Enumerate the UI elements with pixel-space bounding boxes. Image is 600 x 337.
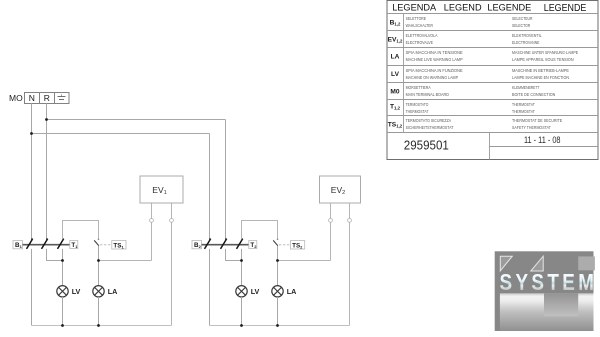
logo notch [544, 293, 578, 316]
node B1 pole3 junction [61, 259, 64, 262]
lamp LA1 [93, 286, 117, 297]
wire N feed horizontal [32, 133, 210, 135]
thermostat T1 label [70, 241, 78, 250]
svg-text:LA: LA [287, 287, 297, 296]
wire B1 pole1 to bus [31, 249, 33, 326]
svg-text:SICHERHEITSTHERMOSTAT: SICHERHEITSTHERMOSTAT [406, 125, 454, 130]
wire N vertical [31, 104, 33, 240]
svg-text:LAMPE APPAREIL SOUS TENSION: LAMPE APPAREIL SOUS TENSION [512, 57, 574, 62]
wire LV2 to bus [241, 297, 243, 326]
switch B2 pole 1 blade [205, 238, 212, 249]
svg-text:2959501: 2959501 [404, 137, 449, 152]
wire LA2 to bus [277, 297, 279, 326]
svg-text:B1,2: B1,2 [390, 19, 401, 26]
svg-text:MACHINE ON WARNING LAMP: MACHINE ON WARNING LAMP [406, 75, 459, 80]
svg-text:SELECTOR: SELECTOR [512, 23, 530, 28]
wire B1 pole2 jumper [47, 249, 63, 261]
ground [58, 94, 66, 99]
selector B2 label [192, 241, 202, 250]
switch B2 pole 3 blade [237, 238, 244, 249]
lamp LV1 [57, 286, 81, 297]
lamp LV2 [236, 286, 260, 297]
svg-text:LEGENDA: LEGENDA [392, 3, 437, 13]
node TS2 junction [276, 259, 279, 262]
svg-text:R: R [44, 93, 50, 103]
wire B2 pole2 jumper [226, 249, 242, 261]
wire EV2 left pin [330, 203, 332, 261]
svg-text:11 - 11 - 08: 11 - 11 - 08 [524, 135, 561, 145]
svg-text:LV: LV [251, 287, 260, 296]
svg-text:T2: T2 [250, 242, 257, 249]
switch B2 pole 2 blade [221, 238, 228, 249]
svg-text:LV: LV [391, 71, 400, 78]
svg-text:SELETTORE: SELETTORE [406, 16, 427, 21]
svg-text:THERMOSTAT: THERMOSTAT [512, 102, 535, 107]
node LA1 bus junction [97, 324, 100, 327]
wire R feed horizontal [47, 119, 226, 121]
wire bus circuit 2 [210, 325, 350, 327]
wire B2 pole1 to bus [209, 249, 211, 326]
node N feed junction [30, 132, 33, 135]
wire bus circuit 1 [32, 325, 172, 327]
selector B1 label [13, 241, 23, 250]
svg-text:ELECTROVANNE: ELECTROVANNE [512, 40, 540, 45]
svg-text:KLEMMENBRETT: KLEMMENBRETT [512, 85, 540, 90]
svg-text:BOITE DE CONNECTION: BOITE DE CONNECTION [512, 92, 555, 97]
svg-text:THERMOSTAT DE SECURITE: THERMOSTAT DE SECURITE [512, 118, 562, 123]
svg-text:N: N [29, 93, 35, 103]
wire EV1 right pin [171, 203, 173, 325]
svg-text:MASCHINE IN BETRIEB-LAMPE: MASCHINE IN BETRIEB-LAMPE [512, 68, 569, 73]
svg-text:LA: LA [391, 54, 400, 61]
connector EV1 left pin [150, 219, 154, 223]
wire B1 pole3 loop to TS1 [63, 221, 99, 240]
svg-text:SPIA MACCHINA IN FUNZIONE: SPIA MACCHINA IN FUNZIONE [406, 68, 463, 73]
svg-text:WAHLSCHALTER: WAHLSCHALTER [406, 23, 433, 28]
safety thermostat TS1 contact [94, 239, 111, 246]
svg-text:TS1,2: TS1,2 [388, 121, 403, 128]
svg-text:MACHINE LIVE WARNING LAMP: MACHINE LIVE WARNING LAMP [406, 57, 463, 62]
connector EV2 right pin [348, 219, 352, 223]
safety thermostat TS2 label [291, 241, 305, 250]
wire B2 pole3 loop to TS2 [242, 221, 278, 240]
connector EV1 right pin [170, 219, 174, 223]
logo top right block [578, 256, 595, 270]
wire EV1 left pin [151, 203, 153, 260]
connector EV2 left pin [329, 219, 333, 223]
logo slab [500, 293, 594, 331]
node TS1 junction [97, 259, 100, 262]
svg-text:ELECTROVALVE: ELECTROVALVE [406, 40, 434, 45]
svg-text:SELECTEUR: SELECTEUR [512, 16, 533, 21]
safety thermostat TS2 contact [273, 239, 290, 246]
coupling bar B1 [23, 244, 70, 246]
legend table [387, 1, 598, 160]
svg-text:MORSETTIERA: MORSETTIERA [406, 85, 431, 90]
wire LA1 to bus [98, 297, 100, 326]
logo triangle 2 [531, 256, 543, 271]
logo plate [495, 251, 594, 331]
thermostat T2 label [249, 241, 257, 250]
svg-text:TS2: TS2 [292, 242, 303, 249]
lamp LA2 [272, 286, 296, 297]
wire EV2 right pin [349, 203, 351, 326]
electrovalve EV1 [140, 176, 183, 203]
switch B1 pole 1 blade [27, 238, 34, 249]
wire N feed vertical to B2 [209, 134, 211, 240]
svg-text:TS1: TS1 [113, 242, 124, 249]
node LV1 bus junction [61, 324, 64, 327]
svg-text:MAIN TERMINAL BOARD: MAIN TERMINAL BOARD [406, 92, 449, 97]
wire B1 pole3 bottom [62, 249, 64, 286]
svg-text:TERMOSTATO: TERMOSTATO [406, 102, 429, 107]
svg-text:LEGENDE: LEGENDE [487, 3, 531, 13]
wire TS1 junction to EV1 [99, 260, 152, 262]
svg-text:LEGENDE: LEGENDE [544, 3, 587, 14]
svg-text:THERMOSTAT: THERMOSTAT [406, 109, 429, 114]
svg-text:MO: MO [9, 93, 23, 103]
svg-text:SAFETY THERMOSTAT: SAFETY THERMOSTAT [512, 125, 551, 130]
svg-text:ELETTROVALVOLA: ELETTROVALVOLA [406, 33, 438, 38]
wire R vertical [46, 104, 48, 240]
safety thermostat TS1 label [112, 241, 126, 250]
svg-text:T1: T1 [71, 242, 78, 249]
node R feed junction [45, 118, 48, 121]
wire LV1 to bus [62, 297, 64, 326]
svg-text:LA: LA [108, 287, 118, 296]
svg-text:ELEKTROVENTIL: ELEKTROVENTIL [512, 33, 542, 38]
coupling bar B2 [202, 244, 249, 246]
node B2 pole3 junction [240, 259, 243, 262]
svg-text:B2: B2 [194, 242, 202, 249]
wire B2 pole3 bottom [241, 249, 243, 286]
svg-text:SPIA MACCHINA IN TENSIONE: SPIA MACCHINA IN TENSIONE [406, 50, 463, 55]
svg-text:THERMOSTAT: THERMOSTAT [512, 109, 535, 114]
wire TS1 bottom [98, 246, 100, 286]
electrovalve EV2 [320, 176, 361, 203]
logo triangle 1 [500, 256, 512, 271]
node LV2 bus junction [240, 324, 243, 327]
switch B1 pole 2 blade [42, 238, 49, 249]
svg-text:M0: M0 [390, 89, 399, 96]
svg-text:LV: LV [72, 287, 81, 296]
svg-text:LAMPE MACHINE EN FONCTION: LAMPE MACHINE EN FONCTION [512, 75, 569, 80]
svg-text:MASCHINE UNTER SPANNUNG-LAMPE: MASCHINE UNTER SPANNUNG-LAMPE [512, 50, 578, 55]
node LA2 bus junction [276, 324, 279, 327]
wire TS2 junction to EV2 [278, 260, 331, 262]
svg-text:T1,2: T1,2 [390, 104, 401, 111]
switch B1 pole 3 blade [58, 238, 65, 249]
svg-text:LEGEND: LEGEND [444, 3, 482, 13]
wire R feed vertical to B2 [225, 120, 227, 240]
terminal block M0 [25, 93, 70, 104]
svg-text:TERMOSTATO SICUREZZA: TERMOSTATO SICUREZZA [406, 118, 452, 123]
svg-text:B1: B1 [15, 242, 23, 249]
svg-text:EV1,2: EV1,2 [388, 37, 403, 44]
wire TS2 bottom [277, 246, 279, 286]
